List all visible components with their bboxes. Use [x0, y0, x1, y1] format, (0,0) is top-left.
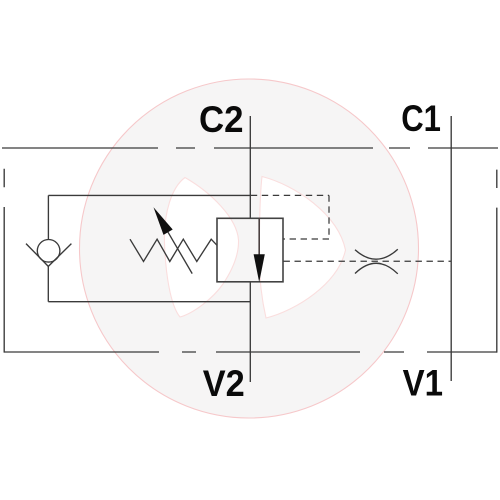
- svg-text:V1: V1: [403, 361, 443, 403]
- wire: check-valve branch top: [48, 194, 250, 196]
- svg-text:V2: V2: [203, 362, 245, 404]
- restrictor lower arc: [355, 263, 398, 274]
- valve flow line inside box: [258, 218, 260, 256]
- adjustment arrow shaft: [168, 231, 193, 273]
- pilot dashed line from C2 node: [251, 194, 329, 196]
- wire: check-valve upper lead: [47, 195, 49, 239]
- watermark left petal: [164, 178, 238, 318]
- port C2 line (vertical above valve box): [249, 116, 251, 218]
- pilot dashed vertical: [328, 195, 330, 239]
- port C1-V1 line (right vertical): [450, 116, 452, 381]
- valve envelope top boundary (long-dash): [2, 147, 498, 149]
- adjustment arrowhead: [154, 207, 173, 235]
- wire: check-valve branch bottom: [48, 301, 250, 303]
- valve flow arrowhead (down): [254, 254, 265, 282]
- svg-text:C2: C2: [199, 98, 244, 140]
- watermark logo circle: [80, 79, 419, 418]
- watermark right petal: [259, 177, 345, 319]
- check valve ball: [37, 240, 60, 263]
- pilot dashed into valve box: [284, 238, 330, 240]
- main valve box U1: [217, 218, 283, 281]
- valve envelope left boundary (long-dash): [3, 169, 5, 353]
- valve envelope right boundary (long-dash): [496, 170, 498, 353]
- check valve seat: [26, 244, 71, 267]
- svg-text:C1: C1: [401, 97, 441, 139]
- port V2 line (vertical below valve box): [249, 282, 251, 382]
- wire: check-valve lower lead: [47, 266, 49, 301]
- spring (zigzag): [130, 239, 217, 261]
- pilot dashed line to V1 through restrictor: [284, 260, 452, 262]
- restrictor upper arc: [355, 249, 398, 259]
- valve envelope bottom boundary (long-dash): [5, 351, 498, 353]
